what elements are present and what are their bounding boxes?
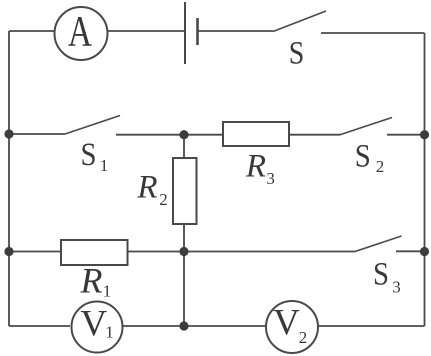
- wire R1 to S3: [128, 251, 356, 253]
- node row2 center: [179, 130, 188, 139]
- svg-text:S: S: [373, 257, 389, 293]
- ammeter A: [55, 7, 108, 60]
- switch S: [273, 11, 326, 72]
- wire R2 bottom to bottom rail: [183, 224, 185, 326]
- wire row2 left segment: [9, 133, 65, 135]
- wire battery to switch S: [199, 30, 274, 32]
- battery cell: [185, 2, 198, 64]
- wire S3 to right rail: [396, 250, 425, 252]
- resistor R1: [61, 240, 128, 301]
- svg-text:V: V: [80, 304, 107, 345]
- switch S2: [340, 118, 392, 177]
- voltmeter V1: [72, 302, 123, 353]
- svg-text:R: R: [80, 261, 103, 301]
- node row3 left: [4, 247, 13, 256]
- wire R3 to S2: [289, 134, 340, 136]
- svg-text:A: A: [68, 9, 92, 56]
- wire left vertical rail: [8, 31, 10, 326]
- svg-text:2: 2: [376, 157, 385, 176]
- wire ammeter to battery: [108, 30, 185, 32]
- wire S2 to right rail: [387, 134, 425, 136]
- wire bottom rail left segment: [9, 325, 70, 327]
- svg-text:1: 1: [100, 156, 109, 175]
- svg-text:1: 1: [105, 323, 114, 342]
- node row2 left: [4, 129, 13, 138]
- resistor R2: [136, 158, 196, 224]
- svg-text:R: R: [245, 149, 266, 185]
- wire V1 to V2: [122, 325, 266, 327]
- svg-text:3: 3: [392, 278, 401, 297]
- wire V2 to bottom right corner: [318, 325, 425, 327]
- node row3 right: [420, 247, 429, 256]
- svg-text:R: R: [136, 170, 157, 206]
- svg-text:2: 2: [159, 190, 168, 209]
- svg-text:3: 3: [266, 169, 275, 188]
- voltmeter V2: [266, 301, 318, 353]
- svg-text:1: 1: [103, 282, 112, 301]
- wire row3 left segment: [9, 251, 61, 253]
- wire node stub row2 to R2: [183, 134, 185, 158]
- switch S3: [355, 236, 402, 297]
- svg-text:S: S: [355, 139, 371, 175]
- switch S1: [65, 116, 120, 176]
- wire right vertical rail: [424, 33, 426, 326]
- resistor R3: [223, 122, 289, 188]
- node bottom center: [179, 321, 188, 330]
- svg-text:S: S: [81, 137, 97, 173]
- node row3 center: [179, 247, 188, 256]
- wire S1 to R3: [116, 134, 223, 136]
- svg-text:V: V: [273, 303, 300, 344]
- node row2 right: [420, 130, 429, 139]
- svg-text:2: 2: [299, 328, 308, 347]
- svg-text:S: S: [289, 36, 305, 72]
- wire switch S to top right corner: [321, 32, 425, 34]
- wire top rail left segment: [9, 30, 55, 32]
